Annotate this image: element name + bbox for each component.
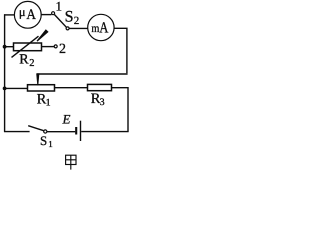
wire mA to right and down to rail bbox=[114, 28, 127, 73]
wire uA to contact 1 bbox=[41, 14, 52, 16]
svg-text:S: S bbox=[65, 9, 74, 26]
svg-text:2: 2 bbox=[74, 15, 80, 27]
wire R1 to R3 bbox=[55, 87, 88, 89]
svg-text:E: E bbox=[62, 112, 71, 127]
svg-text:2: 2 bbox=[59, 42, 66, 57]
wire bottom-left horizontal to S1 bbox=[4, 131, 30, 133]
node contact 2 of S2 bbox=[54, 45, 57, 48]
wire R1 branch from bus bbox=[5, 87, 28, 89]
switch S2 blade bbox=[54, 15, 66, 28]
svg-text:1: 1 bbox=[46, 97, 51, 108]
resistor R1 box bbox=[28, 85, 55, 91]
svg-text:A: A bbox=[26, 7, 36, 23]
rheostat R2 arrowhead wedge bbox=[37, 29, 49, 41]
node junction dot at R2 branch bbox=[3, 45, 7, 49]
svg-text:S: S bbox=[40, 133, 47, 148]
wire S1 to battery bbox=[47, 131, 75, 133]
wire left bus vertical bbox=[4, 14, 6, 132]
svg-text:2: 2 bbox=[29, 58, 34, 69]
svg-text:A: A bbox=[99, 19, 109, 36]
svg-text:1: 1 bbox=[48, 139, 53, 149]
rheostat R2 box bbox=[14, 43, 42, 51]
rheostat R1 slider arrow wedge bbox=[36, 73, 39, 85]
ammeter uA (microammeter) bbox=[14, 1, 41, 28]
node pivot of S2 bbox=[66, 27, 69, 30]
wire R2 branch from bus bbox=[5, 46, 14, 48]
wire battery to right bus bbox=[81, 131, 128, 133]
svg-text:3: 3 bbox=[100, 97, 105, 108]
battery E negative short plate bbox=[75, 127, 77, 135]
battery E positive long plate bbox=[80, 121, 82, 141]
wire S2 pivot to milliammeter bbox=[69, 27, 88, 29]
ammeter mA (milliammeter) bbox=[88, 14, 114, 40]
wire top-left horizontal to microammeter bbox=[4, 14, 15, 16]
svg-text:R: R bbox=[19, 53, 29, 68]
rheostat R2 arrow shaft bbox=[12, 36, 39, 57]
node contact 1 of S2 bbox=[52, 12, 55, 15]
svg-text:1: 1 bbox=[56, 0, 63, 13]
node junction dot at R1 branch bbox=[3, 87, 7, 91]
resistor R3 box bbox=[88, 84, 112, 90]
switch S1 blade bbox=[28, 126, 44, 131]
label jia (Chinese character for figure A) drawn as strokes bbox=[66, 155, 76, 169]
svg-text:μ: μ bbox=[19, 5, 26, 19]
node S1 contact bbox=[44, 130, 47, 133]
wire R2 to contact 2 bbox=[42, 46, 55, 48]
wire middle rail to slider tap bbox=[37, 73, 128, 75]
wire R3 right and down to battery bbox=[112, 88, 129, 132]
